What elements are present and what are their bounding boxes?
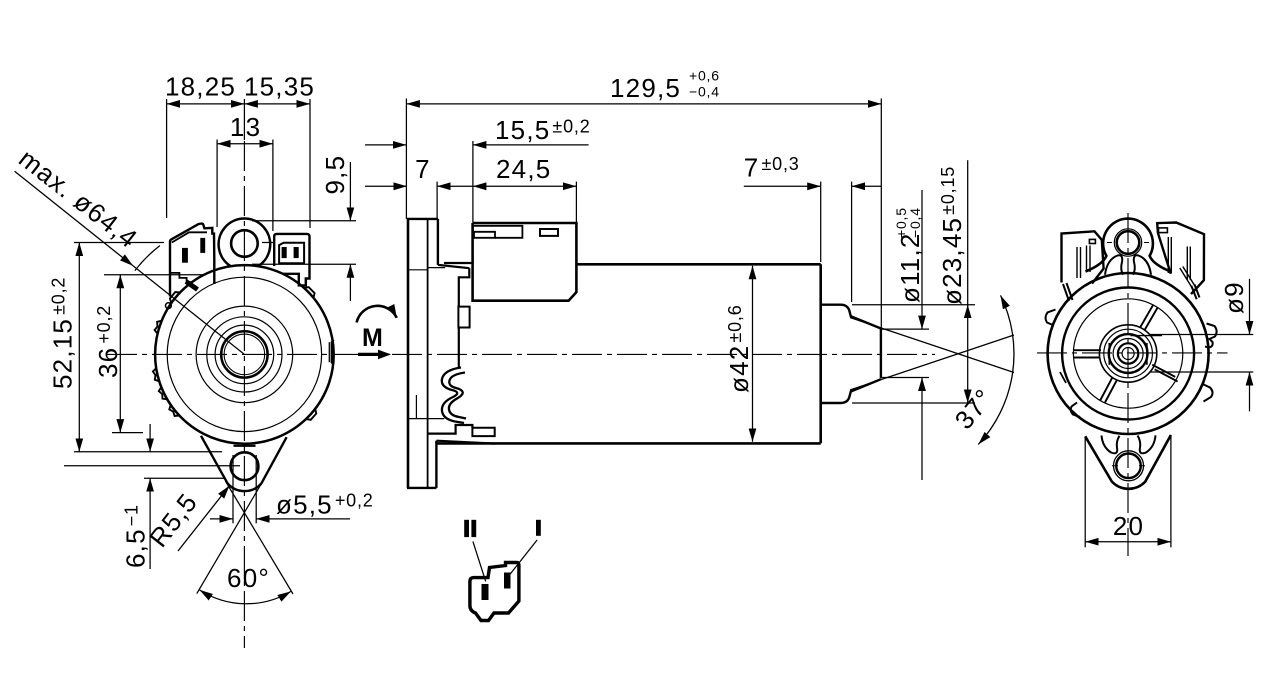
dim line dia42 [752,266,754,442]
bottom lug right wing [1138,435,1156,453]
rib upper right [1140,305,1153,328]
cylinder right face [819,264,822,443]
top lug dome [1086,219,1171,272]
top lug hole centerline dashes [1107,242,1149,244]
face circle r37 [207,317,282,392]
centerline horizontal [1037,352,1228,354]
dim line 9,5 [349,162,351,221]
flange bottom slant [436,441,495,444]
bottom lug right side [261,437,286,483]
spring clip [442,368,464,424]
left view rim bumps and seam tabs [153,287,334,420]
gearbox upper profile [459,268,470,306]
housing vent slot [540,229,558,236]
max dia 64,4 leader [15,171,133,265]
dim line 15,35 [244,103,310,105]
60 deg construction lines [225,481,293,594]
svg-text:9,5: 9,5 [320,155,350,195]
top lug right wing [1133,255,1151,274]
rib left [1073,349,1101,351]
svg-text:M: M [362,324,383,352]
bottom lug outline [1085,435,1171,489]
outer body circle [1048,273,1209,434]
dim 7+-0,3 extension lines [820,182,822,262]
bottom lug apex arc R5.5 [228,483,262,491]
bearing bore thick circle [221,331,267,377]
dim 7 flange ext [436,182,438,219]
flange left face [407,219,410,488]
cylinder bottom edge [437,442,821,445]
shaft boss circle [1109,334,1148,373]
svg-text:129,5: 129,5 [610,73,681,103]
body rim circle [167,277,321,431]
svg-text:13: 13 [230,112,261,142]
hub circle [1099,325,1156,382]
dim line 15,5 [365,144,406,146]
bottom lug hole centerline dashes [1112,465,1145,467]
motor rotation symbol M [357,306,397,359]
bore inner circle [224,334,265,375]
top mounting lug dome [219,219,271,267]
dim 9,5 extension lines [252,220,356,222]
dim line dia23,45 [967,160,969,304]
flange right face lower [435,441,437,488]
top lug hole [1117,231,1140,254]
svg-text:−0,4: −0,4 [689,84,720,100]
flange step upper [407,269,428,271]
right view right connector [1157,223,1204,295]
flange inner line [427,219,429,488]
svg-text:18,25: 18,25 [165,72,236,102]
bearing boss bottom [821,379,881,403]
motor body outer circle [155,265,334,444]
gearbox face lower [458,328,460,369]
flange bottom edge [407,487,436,489]
top lug left wing [1105,255,1123,274]
gearbox neck slant [438,265,469,268]
dim line 52,15 [78,243,80,452]
right view dimension texts [1113,281,1249,541]
rib lower right [1152,365,1175,377]
dim line 13 [217,143,273,145]
dim line 36 [119,275,121,433]
dim 129,5 extension lines [405,99,407,219]
brush plate tab [472,428,494,436]
dim 52,15 extension lines [74,242,164,244]
dim line dia9 [1249,279,1251,335]
hub flats [1108,343,1110,365]
dim line 5,5 [210,518,233,520]
gearbox lower steps [428,425,473,434]
dim line dia11,2 [921,190,923,329]
right side tab upper [1205,324,1217,348]
bottom left tab [1071,403,1080,418]
svg-text:ø9: ø9 [1219,281,1249,314]
hub circle r24 [1104,329,1153,378]
bottom lug left side [201,436,228,484]
shaft circle r15 [1113,339,1143,369]
centerline vertical [1127,213,1129,556]
shaft tip face [880,328,882,379]
dim line 24,5 [473,185,577,187]
37 deg construction lines [850,318,1014,373]
dim line 129,5 [406,103,881,105]
svg-text:15,35: 15,35 [244,72,315,102]
centerline [392,353,935,355]
svg-text:24,5: 24,5 [496,154,551,184]
right side tab lower [1203,384,1213,402]
left view dimension texts [13,72,373,594]
dim 5,5 extension lines [232,455,234,523]
dim 13 extension lines [216,140,218,228]
centerline horizontal [107,353,390,355]
shaft center hole [1122,348,1134,360]
bearing boss box [458,307,469,328]
face circle r29 [215,325,274,384]
gear cover circle [1062,288,1194,420]
dim line 20 [1085,541,1171,543]
svg-text:60°: 60° [227,563,270,593]
flange right face upper [437,219,439,265]
left seam tick [1060,372,1066,383]
connector housing [473,223,577,301]
svg-text:ø11,2: ø11,2 [895,232,925,303]
shaft end circle [1118,343,1138,363]
dia9 extension lines [1150,334,1253,336]
left side tab [1046,310,1056,326]
face circle r48 [196,306,293,403]
rib lower left [1100,378,1112,401]
right view left connector [1062,231,1104,283]
centerline vertical [243,141,245,648]
bearing boss top [821,305,881,329]
svg-text:−0,4: −0,4 [907,207,923,238]
max dia 64,4 circle arc segment [135,246,160,271]
bottom lug hole [231,452,259,480]
svg-text:+0,6: +0,6 [689,68,720,84]
60 deg arc [200,590,291,604]
left view left connector block [166,224,215,309]
dim 36 extension lines [104,274,206,276]
rib ring circle [1073,299,1182,408]
dim line 6,5 [149,424,151,452]
37 deg arc [978,295,1014,444]
dim 24,5 extension lines [472,141,474,223]
svg-text:7: 7 [415,154,431,184]
R5,5 leader [178,486,230,551]
dim line 7 flange [365,185,407,187]
cylinder top edge [576,263,820,266]
top lug hole [231,230,258,257]
svg-text:20: 20 [1113,511,1144,541]
lower thin step [407,418,444,420]
flange top edge [407,218,438,220]
dim line 18,25 [167,103,245,105]
bottom lug left wing [1102,436,1120,454]
dia11,2 extension lines [881,328,929,330]
middle view dimension texts [415,68,999,435]
dim 6,5 extension lines [64,465,240,467]
dim 20 extension lines [1084,437,1086,548]
bottom lug slot bar [234,445,256,447]
dim line 7+-0,3 [744,185,821,187]
bottom lug hole [1116,454,1141,479]
dim 18,25 / 15,35 extension lines [166,99,168,218]
left view right connector block [274,234,309,286]
dia23,45 extension lines [852,304,975,306]
